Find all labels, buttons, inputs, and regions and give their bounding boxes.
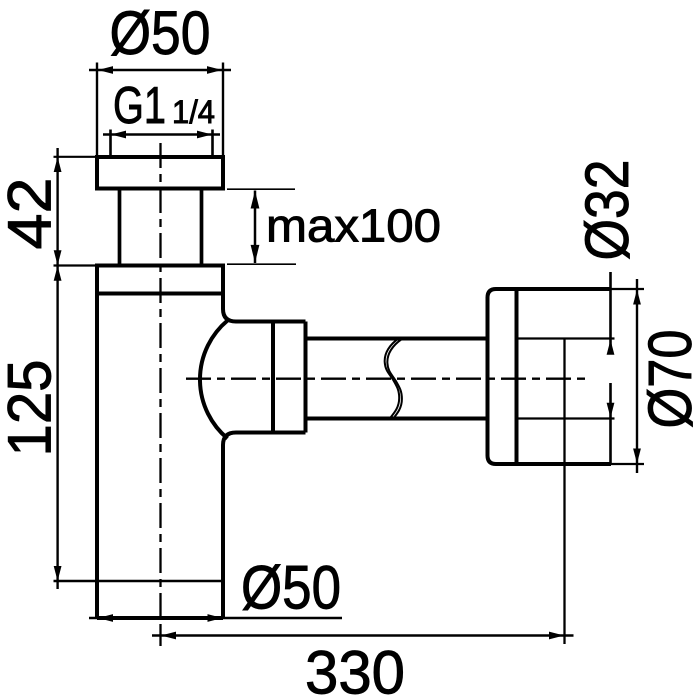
outlet pipe bottom edge [306,417,488,421]
svg-text:Ø32: Ø32 [573,160,641,261]
label 1/4 [172,94,215,130]
svg-text:Ø70: Ø70 [636,330,700,429]
svg-text:330: 330 [305,639,405,700]
svg-text:125: 125 [0,360,64,457]
vertical centerline [159,143,161,621]
trap body bottom edge [97,616,223,620]
wall flange inner face line [515,289,519,464]
label G1 [113,77,166,135]
svg-text:Ø50: Ø50 [241,554,341,622]
label 125 [0,360,64,457]
locking ring [97,264,223,296]
label Ø32 [573,160,641,261]
svg-text:1/4: 1/4 [172,94,215,130]
inlet neck tube [120,189,202,266]
dimension Ø50 top extension lines [97,63,223,158]
trap body left wall [95,294,99,619]
wall flange right edge lower segment [609,383,612,464]
dimension Ø50 bottom line with text shelf [89,614,342,622]
branch dome intersection arc [200,321,228,439]
wall flange outline [488,289,612,464]
dimension G1 1/4 extension lines [111,130,213,158]
dimension Ø70 extension lines [611,289,644,464]
label Ø50 bottom [241,554,341,622]
pipe edge extension lines inside flange [517,339,615,419]
label Ø50 top [110,0,211,67]
dimension Ø70 line [633,279,641,473]
svg-text:max100: max100 [266,200,441,252]
outlet pipe top edge [306,337,488,341]
trap body right wall lower with fillet from branch [223,433,273,619]
svg-text:G1: G1 [113,77,166,135]
label Ø70 [636,330,700,429]
dimension 330 line [152,632,574,640]
horizontal centerline [186,378,590,380]
dimension max100 extension lines [227,189,296,264]
dimension 42 extension lines [54,157,117,266]
dimension 125 line [54,266,62,590]
svg-text:42: 42 [0,178,64,250]
label 42 [0,178,64,250]
dimension 42 line [54,148,62,266]
trap body right wall upper with fillet into branch [223,294,273,322]
coupling nut [273,322,306,433]
top flange outline [97,155,223,191]
dimension Ø32 leader and arrows [607,340,615,418]
svg-text:Ø50: Ø50 [110,0,211,67]
dimension max100 line [251,191,260,264]
dimension Ø50 top line [89,66,231,74]
vertical centerline bottom tick through 330 dimension [159,624,161,646]
pipe break squiggle [385,338,402,420]
dimension G1 1/4 line [103,131,220,139]
label max100 [266,200,441,252]
pipe end / wall line [563,339,565,645]
dimension 125 bottom extension line [54,580,225,583]
label 330 [305,639,405,700]
wall flange right edge upper segment [609,272,612,352]
